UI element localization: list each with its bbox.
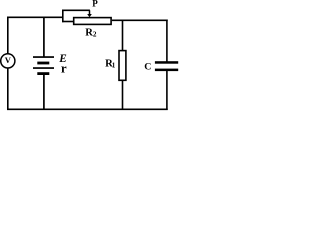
wire rheostat loop top (to wiper) [62,9,90,11]
wire left border lower (voltmeter to bottom) [7,68,9,110]
battery cell plate short thick (-) [37,62,49,65]
svg-text:2: 2 [93,31,97,39]
wire left border upper (to voltmeter) [7,17,9,54]
wire stub loop to R2 left end [62,21,74,23]
wire top-right segment (R2 to right border) [112,19,168,21]
label R1 [105,58,116,69]
wire battery bottom stem [43,75,45,110]
svg-text:V: V [5,55,12,65]
svg-text:1: 1 [112,62,116,70]
wire right border lower (capacitor to bottom) [166,71,168,110]
label R2 [85,27,97,38]
capacitor C top plate [155,61,178,64]
battery cell plate long (+) [33,67,54,69]
rheostat R2 box [74,18,111,25]
wire battery top stem [43,17,45,57]
battery cell plate short thick (bottom, -) [37,72,49,75]
wire bottom [7,108,168,110]
wire top-left segment [7,16,64,18]
voltmeter V [1,54,15,68]
wire right border upper (to capacitor) [166,20,168,62]
resistor R1 box [119,51,126,81]
svg-text:r: r [61,61,67,76]
wire rheostat loop vertical [62,10,64,23]
wiper arrow P [87,10,92,17]
wire R1 bottom stem [122,81,124,111]
svg-text:C: C [144,62,151,73]
battery cell plate long (top, +) [33,56,54,58]
svg-text:P: P [92,0,98,9]
capacitor C bottom plate [155,69,178,72]
wire R1 top stem [122,20,124,51]
